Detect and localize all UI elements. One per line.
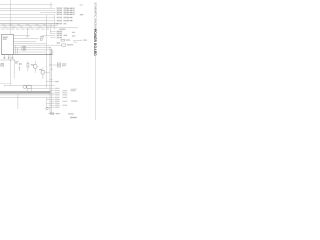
wire stubs to band — [27, 88, 32, 91]
wire row 107.3 — [47, 106, 55, 108]
IC pin wire 8 — [13, 42, 46, 44]
wire bus top row 1 — [0, 3, 53, 5]
wire lower left loop — [0, 60, 14, 79]
net label below row9 — [59, 29, 65, 30]
label near connector line2 — [15, 63, 18, 64]
IC pin wire 4 — [13, 44, 61, 46]
wire bottom stub — [48, 113, 54, 115]
net label right wide upper line1 — [71, 89, 77, 90]
component D1 near IC — [40, 39, 42, 41]
wire row 93.2 stub — [51, 92, 55, 94]
resistor R horizontal — [62, 44, 66, 46]
label row 81.7 — [55, 81, 59, 82]
wire vertical x50.4 — [49, 28, 51, 33]
wire row 99.4 — [47, 98, 55, 100]
wire bus top row 2 — [0, 7, 55, 9]
IC U1 body — [1, 34, 13, 54]
IC pin wire 7 — [13, 51, 46, 53]
label near connector — [15, 61, 18, 62]
wire vertical stub top — [50, 3, 52, 9]
D2 inner mark — [58, 64, 60, 66]
transistor Q2 — [41, 70, 45, 74]
faint wire y83.3 — [0, 82, 11, 84]
wire to D2 — [50, 64, 58, 66]
net labels column A — [57, 8, 63, 25]
label Z1 — [66, 39, 70, 40]
wire stub right row6 — [67, 20, 73, 22]
wire row 105.3 — [50, 104, 55, 106]
transistor Q1 — [33, 65, 37, 69]
label R value — [67, 44, 73, 45]
net labels column C — [70, 8, 75, 22]
capacitor C plates 3 — [11, 56, 13, 59]
small marks under wire 2 — [76, 41, 77, 44]
wire vertical x54.6 — [54, 15, 56, 29]
small part stub x19.4 — [18, 66, 20, 71]
wire bus top row 3 — [0, 9, 55, 11]
wire stub right row3 — [67, 9, 73, 11]
junction dot — [51, 69, 52, 70]
connector CN left — [1, 64, 4, 67]
wire bus top row 4 — [0, 13, 55, 15]
wire corner stub x27 — [26, 28, 28, 37]
wire row 97.4 — [0, 96, 55, 98]
small part marks — [19, 63, 21, 65]
capacitor C plates 1 — [3, 56, 5, 59]
wire bus top row 6 — [0, 20, 55, 22]
IC pin wire 1 — [13, 34, 30, 36]
decoupling stub 1 — [3, 54, 5, 59]
label D1 above — [40, 36, 44, 37]
resistor R vertical mid — [27, 63, 29, 67]
decoupling stub 2b — [10, 54, 12, 59]
wire stub right row5 — [67, 17, 73, 19]
wire row 81.7 — [46, 81, 54, 83]
wire row 33.4 — [50, 32, 55, 34]
IC pin wire 6 — [13, 49, 51, 51]
junction cluster smudge — [50, 50, 53, 55]
net labels column B — [64, 8, 69, 25]
wire bus top row 8 — [0, 25, 58, 27]
resistor pair R mid — [22, 46, 26, 50]
sheet border line right — [94, 53, 96, 120]
net labels bottom column A — [55, 88, 60, 108]
bus line dark mid — [1, 53, 51, 55]
decoupling stub 3 — [11, 54, 13, 59]
small marks under wire — [74, 42, 76, 43]
capacitor C plates 2 — [8, 56, 10, 59]
wire row above band — [27, 87, 54, 89]
wire row 103.3 — [47, 102, 55, 104]
long vertical net x51.7 — [51, 50, 53, 114]
wire stub row 12.3 — [40, 11, 56, 13]
circuit schematic sheet — [0, 0, 101, 120]
part number text bottom right — [70, 117, 77, 118]
relay K1 coil circle — [23, 85, 26, 88]
wire right y40.3 — [73, 40, 82, 41]
label right of wire — [83, 40, 86, 41]
net labels mid cluster — [57, 31, 68, 44]
node label C1 lone — [80, 14, 83, 15]
tiny label top right — [80, 4, 83, 5]
label bottom stub — [56, 113, 60, 114]
faint text specks along bus rows — [1, 24, 49, 29]
junction dots — [10, 47, 52, 66]
label net right 1 — [72, 32, 75, 33]
polarized cap bottom — [46, 107, 48, 109]
label D2 line1 — [62, 63, 67, 64]
IC pin wire 3 — [13, 40, 36, 42]
crystal X1 bottom — [51, 113, 54, 115]
net label right wide upper line2 — [71, 90, 76, 91]
wire bus top row 5 — [0, 17, 55, 19]
connector pin dot — [1, 63, 4, 66]
IC pin wire 2 — [13, 37, 38, 39]
wire relay row — [5, 85, 55, 87]
note text bottom right — [68, 113, 74, 114]
wire stub right row3b — [67, 11, 73, 13]
heavy gray bus band — [0, 91, 51, 94]
net label bottom wide — [71, 100, 77, 101]
label Q1 — [31, 64, 34, 65]
svg-text:SCHEMATIC DIAGRAMS: SCHEMATIC DIAGRAMS — [93, 2, 97, 32]
wire bus top row 7 dark — [0, 23, 58, 25]
vertical net x46.6 — [46, 98, 48, 109]
transistor Q1 leads — [34, 61, 36, 73]
relay K1 box — [27, 85, 31, 88]
wire stub x27.9 — [27, 61, 29, 71]
decoupling stub 2 — [8, 54, 10, 59]
vertical net x17.9 — [17, 91, 19, 109]
IC pin wire 5 — [13, 47, 50, 49]
tick marks row8 — [51, 26, 54, 27]
long vertical net x46 — [45, 15, 47, 88]
svg-text:POWER BOARD: POWER BOARD — [93, 29, 97, 56]
label net right 2 — [72, 35, 75, 36]
wire drop x15.6 — [15, 45, 17, 54]
transistor Q2 leads — [43, 68, 50, 80]
wire row 94.9 — [0, 94, 55, 96]
label D2 line2 — [62, 65, 66, 66]
wire row 101.3 — [50, 100, 55, 102]
wire row 90.7 — [50, 90, 55, 92]
wire stub below dark row — [50, 24, 52, 28]
wire stub right row2 — [67, 7, 73, 9]
wire row 35.4 ext — [42, 34, 56, 36]
long vertical net x50 — [49, 48, 51, 114]
IC U1 label — [3, 37, 8, 40]
wire vertical into IC — [9, 0, 11, 34]
wire drop x17.6 — [17, 48, 19, 55]
wire vertical x10.6 — [10, 60, 12, 86]
net labels bottom column B — [62, 90, 67, 106]
component Z1 small box — [61, 39, 65, 41]
wire row 37.6 — [50, 37, 55, 39]
wire row 31.4 — [50, 30, 55, 32]
wire stub right row4 — [67, 13, 73, 15]
wire bus top row 9 — [0, 27, 78, 29]
label Q2 — [39, 69, 42, 70]
diode D2 mid right — [58, 63, 61, 67]
end ticks verticals — [49, 78, 52, 80]
